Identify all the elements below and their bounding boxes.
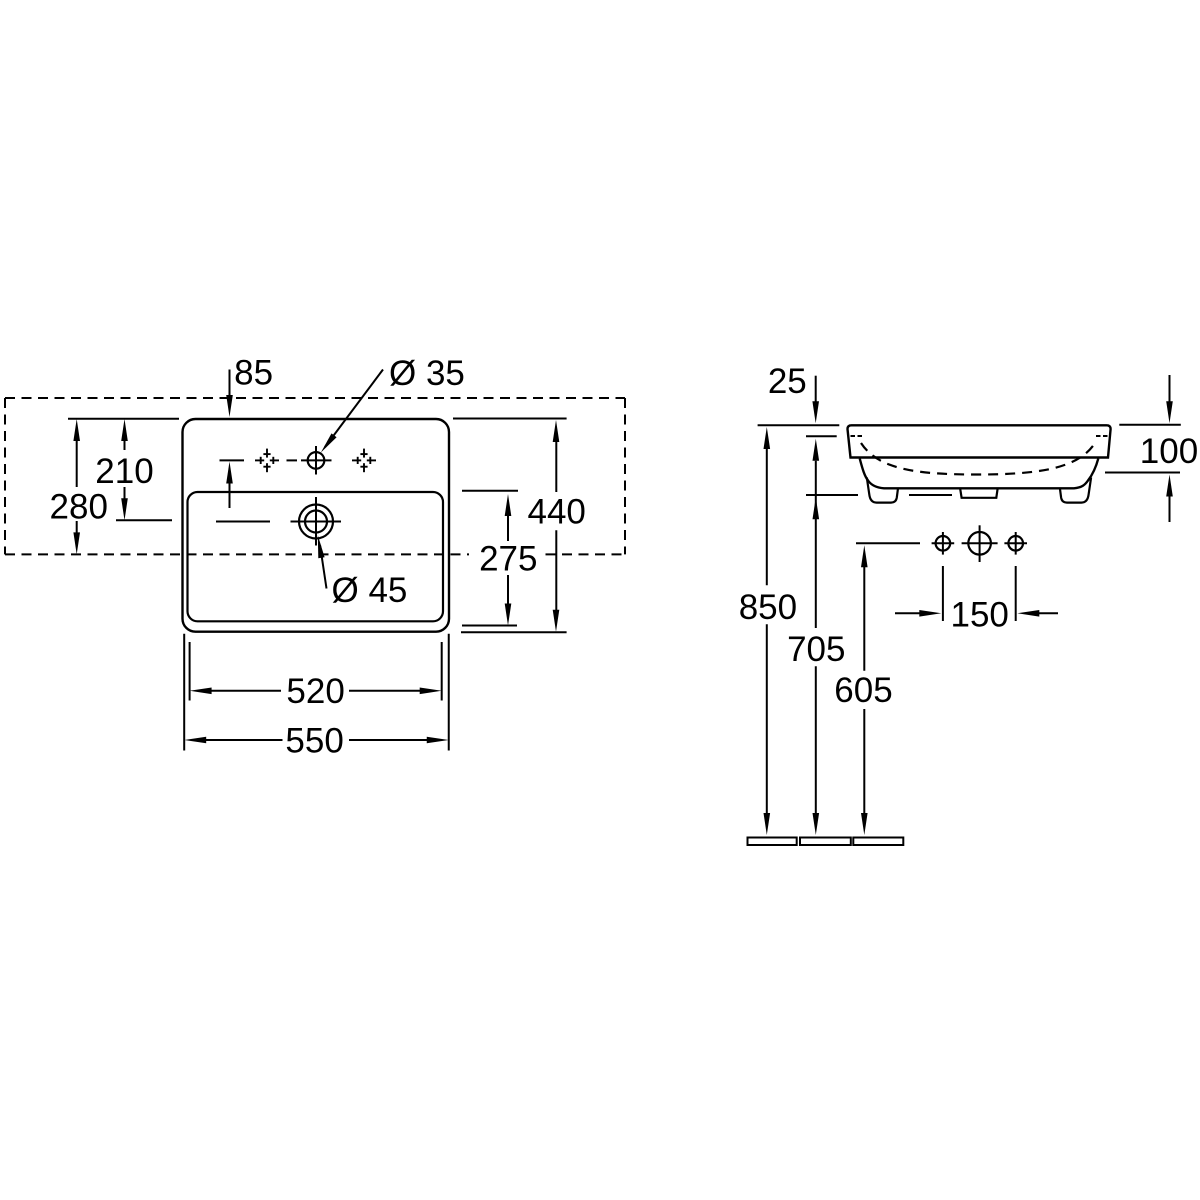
svg-text:605: 605 bbox=[834, 671, 892, 710]
svg-text:520: 520 bbox=[286, 672, 344, 711]
svg-text:85: 85 bbox=[234, 353, 273, 392]
svg-text:100: 100 bbox=[1140, 432, 1198, 471]
svg-text:705: 705 bbox=[787, 630, 845, 669]
svg-text:Ø 45: Ø 45 bbox=[332, 571, 408, 610]
svg-text:280: 280 bbox=[50, 488, 108, 527]
svg-text:210: 210 bbox=[95, 452, 153, 491]
svg-text:150: 150 bbox=[950, 595, 1008, 634]
svg-text:275: 275 bbox=[479, 540, 537, 579]
svg-text:440: 440 bbox=[527, 493, 585, 532]
svg-text:Ø 35: Ø 35 bbox=[389, 354, 465, 393]
svg-text:550: 550 bbox=[285, 722, 343, 761]
svg-text:850: 850 bbox=[739, 588, 797, 627]
svg-text:25: 25 bbox=[768, 362, 807, 401]
